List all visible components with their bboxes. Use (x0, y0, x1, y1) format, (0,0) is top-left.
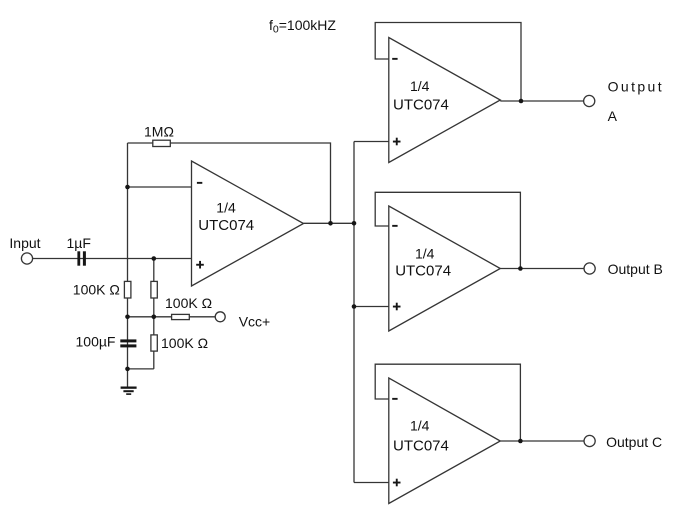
op-amp U1 1/4 UTC074 triangle (192, 161, 304, 286)
svg-text:100K Ω: 100K Ω (165, 295, 212, 311)
wire U4 output (500, 440, 584, 442)
resistor 100K left body (124, 281, 130, 298)
svg-text:1/4: 1/4 (216, 199, 236, 215)
output C terminal circle (584, 435, 595, 446)
plus sign U3 (393, 306, 401, 308)
svg-text:1/4: 1/4 (410, 78, 430, 94)
node line vertical (feedback node) (127, 143, 129, 369)
svg-text:Vcc+: Vcc+ (239, 314, 271, 330)
minus sign U2 (392, 58, 397, 60)
junction dot feedback/output (328, 221, 333, 226)
capacitor 1uF plates (77, 251, 80, 265)
wire U3 output (500, 268, 584, 270)
ground symbol bars (121, 387, 137, 389)
wire bottom joining (128, 368, 154, 370)
wire 1M feedback top (128, 143, 331, 223)
junction dot U2 output (519, 99, 524, 104)
bus vertical (353, 142, 355, 483)
wire divider vertical (153, 259, 155, 369)
svg-text:1/4: 1/4 (415, 246, 435, 262)
junction dot bus/output (352, 221, 357, 226)
output A terminal circle (584, 95, 595, 106)
minus sign U4 (392, 398, 397, 400)
op-amp U2 1/4 UTC074 triangle (389, 38, 501, 163)
Vcc+ terminal circle (215, 312, 225, 322)
op-amp U3 1/4 UTC074 triangle (389, 206, 501, 331)
junction dot bus/U3 plus (352, 304, 357, 309)
svg-text:1/4: 1/4 (410, 418, 430, 434)
plus sign U1 (196, 264, 204, 266)
plus sign U4 (393, 482, 401, 484)
junction dot node right (152, 315, 157, 320)
wire minus input U1 (128, 186, 192, 188)
svg-text:100K Ω: 100K Ω (161, 335, 208, 351)
minus sign U3 (392, 225, 397, 227)
svg-text:Input: Input (9, 235, 40, 251)
junction dot U3 output (518, 266, 523, 271)
plus sign U2 (393, 141, 401, 143)
wire U3 feedback loop (375, 192, 520, 268)
resistor 100K lower body (151, 335, 157, 351)
svg-text:1µF: 1µF (67, 235, 91, 251)
junction dot U4 output (518, 439, 523, 444)
wire bus to U4 plus (354, 482, 389, 484)
resistor 1M ohm body (153, 140, 171, 146)
svg-text:f0=100kHZ: f0=100kHZ (269, 17, 336, 36)
svg-text:100µF: 100µF (76, 334, 116, 350)
svg-text:Output C: Output C (606, 434, 662, 450)
svg-text:UTC074: UTC074 (393, 96, 449, 113)
svg-text:Output B: Output B (608, 261, 663, 277)
wire bus to U2 plus (354, 141, 389, 143)
wire U2 output (500, 100, 583, 102)
resistor 100K to Vcc body (172, 314, 190, 319)
op-amp U4 1/4 UTC074 triangle (389, 378, 501, 504)
junction dot bottom (125, 367, 130, 372)
svg-text:A: A (608, 108, 618, 124)
wire U4 feedback loop (375, 364, 520, 441)
junction dot minus node (125, 185, 130, 190)
wire U1 output to bus (304, 222, 355, 224)
ground stem (127, 369, 129, 387)
junction dot node left (125, 315, 130, 320)
junction dot input/divider (152, 256, 157, 261)
wire input to op-amp plus (33, 258, 192, 260)
output B terminal circle (584, 263, 595, 274)
svg-text:UTC074: UTC074 (393, 438, 449, 455)
svg-text:UTC074: UTC074 (395, 262, 451, 279)
svg-text:Output: Output (608, 79, 664, 95)
wire U2 feedback loop (375, 23, 521, 102)
resistor 100K middle body (151, 281, 157, 298)
minus sign U1 (197, 182, 202, 184)
svg-text:100K Ω: 100K Ω (73, 282, 120, 298)
svg-text:1MΩ: 1MΩ (144, 124, 174, 140)
wire node to Vcc resistor (128, 316, 216, 318)
wire bus to U3 plus (354, 306, 389, 308)
input terminal circle (21, 253, 32, 264)
svg-text:UTC074: UTC074 (198, 217, 254, 234)
capacitor 100uF plates (120, 339, 136, 342)
